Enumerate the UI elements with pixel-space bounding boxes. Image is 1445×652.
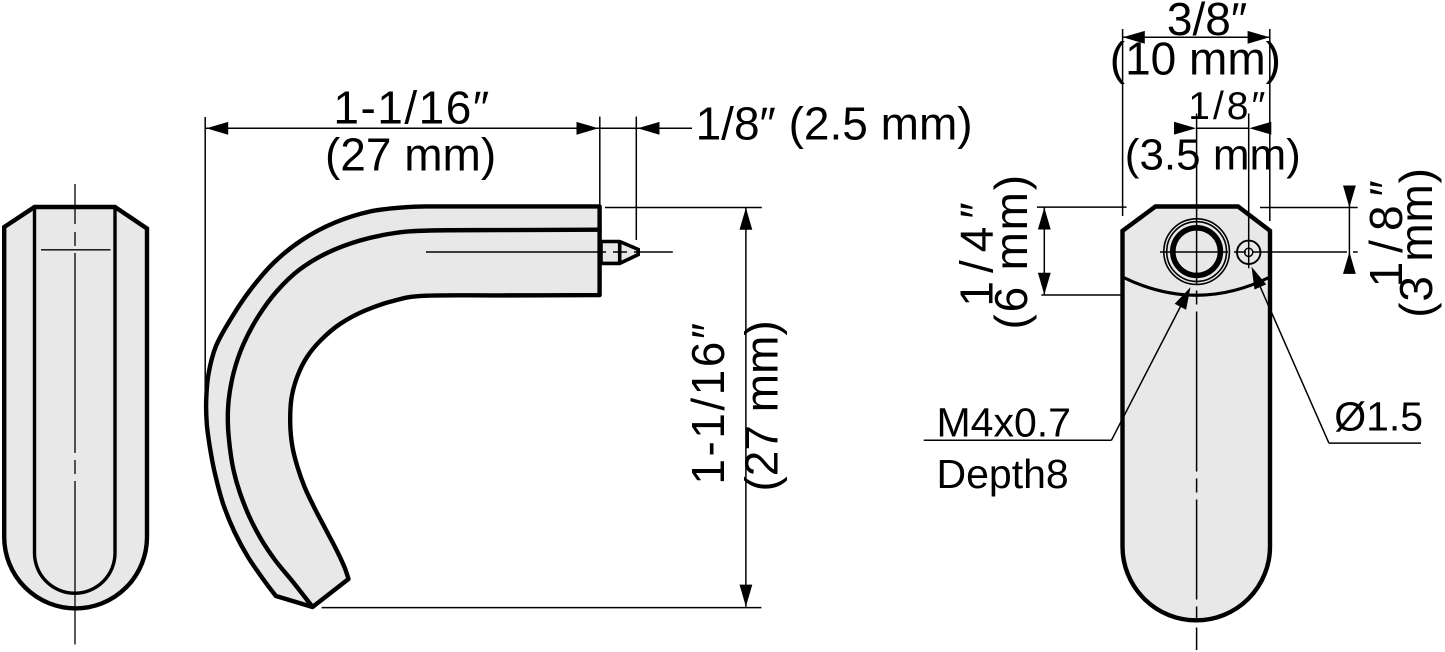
svg-text:(27 mm): (27 mm) (325, 128, 496, 180)
svg-text:Depth8: Depth8 (937, 451, 1069, 497)
svg-text:(6 mm): (6 mm) (985, 173, 1037, 329)
svg-text:1-1/16″: 1-1/16″ (682, 320, 734, 484)
svg-text:Ø1.5: Ø1.5 (1334, 394, 1423, 440)
svg-text:(27 mm): (27 mm) (736, 320, 788, 491)
svg-text:1/8″: 1/8″ (1188, 85, 1268, 128)
svg-text:M4x0.7: M4x0.7 (937, 400, 1071, 446)
svg-text:1-1/16″: 1-1/16″ (333, 82, 490, 134)
svg-text:(3.5 mm): (3.5 mm) (1125, 130, 1301, 179)
svg-text:(10 mm): (10 mm) (1110, 33, 1281, 85)
svg-text:(3 mm): (3 mm) (1390, 167, 1442, 317)
svg-text:1/8″ (2.5 mm): 1/8″ (2.5 mm) (696, 98, 973, 150)
